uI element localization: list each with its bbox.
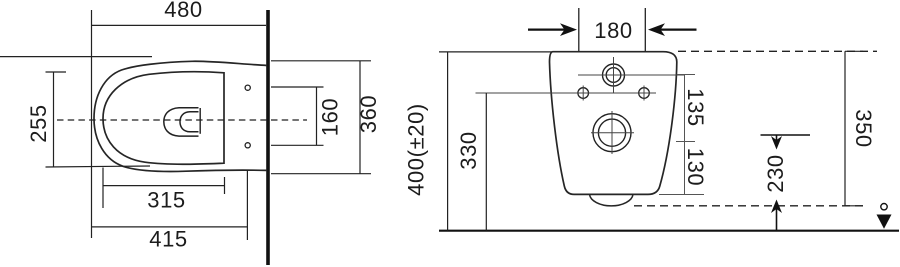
- dim 135 top tick: [677, 74, 695, 76]
- reference line top-left: [0, 56, 152, 58]
- drain circle outer: [593, 114, 631, 152]
- datum triangle: [877, 215, 892, 229]
- fixing hole top (top view): [245, 85, 250, 90]
- toilet seat inner outline (top view): [103, 72, 224, 164]
- svg-text:180: 180: [594, 18, 633, 43]
- dim 180 left arrow: [528, 23, 577, 36]
- svg-text:315: 315: [147, 188, 186, 213]
- bottom dashed reference line: [634, 205, 867, 207]
- dim 315 right extension: [224, 177, 226, 194]
- svg-text:255: 255: [26, 104, 51, 143]
- fixing hole bottom (top view): [245, 143, 250, 148]
- dim 360 bottom tick: [271, 173, 371, 175]
- svg-text:400(±20): 400(±20): [404, 103, 429, 196]
- dim 415 line: [92, 226, 248, 228]
- svg-text:135: 135: [683, 88, 708, 127]
- inlet circle outer: [603, 64, 625, 86]
- dim 160 top tick: [271, 86, 324, 88]
- dim 180 left extension: [578, 8, 580, 52]
- dim 180 right arrow: [648, 23, 697, 36]
- svg-text:415: 415: [149, 226, 188, 251]
- dim 160 bottom tick: [271, 144, 324, 146]
- drain circle inner: [598, 119, 625, 146]
- outlet bump: [590, 194, 634, 205]
- dim 160 line: [316, 87, 318, 145]
- dim 135/130 middle tick: [676, 141, 695, 143]
- flush opening outer arc: [164, 108, 199, 136]
- svg-text:360: 360: [356, 95, 381, 134]
- dim 230 top tick: [761, 134, 811, 136]
- toilet body outline (front view): [550, 52, 677, 195]
- dim 180 right extension: [644, 8, 646, 52]
- dim 360 top tick: [271, 60, 371, 62]
- dim 315 left extension: [102, 168, 104, 209]
- dim 130 bottom tick: [659, 194, 704, 196]
- floor line: [439, 230, 899, 232]
- svg-text:480: 480: [164, 0, 203, 22]
- svg-text:350: 350: [851, 109, 876, 148]
- dim 350 top tick: [845, 50, 863, 52]
- dim 230 up arrow: [771, 200, 782, 231]
- dim 230 down arrow: [771, 135, 782, 150]
- dim 415 right extension: [246, 170, 248, 240]
- dim 360 line: [359, 61, 361, 174]
- side hole right: [639, 88, 650, 99]
- flush opening chord line: [199, 108, 201, 134]
- toilet outer outline (top view): [94, 61, 267, 171]
- dim 480 line: [92, 24, 267, 26]
- side hole left vertical crosshair: [582, 86, 584, 101]
- dim 350 bottom tick: [845, 205, 863, 207]
- inlet circle inner: [606, 68, 621, 83]
- top reference line: [439, 51, 556, 53]
- wall line: [266, 10, 270, 265]
- top dashed reference line: [678, 50, 877, 52]
- dim 255 line: [53, 72, 55, 167]
- inlet horizontal crosshair / 135 top reference: [578, 74, 685, 76]
- drain vertical crosshair: [611, 111, 613, 154]
- dim 135/130 line: [684, 75, 686, 195]
- centerline dashed (top view): [57, 119, 307, 121]
- dim 350 line: [844, 51, 846, 206]
- side holes horizontal line / 330 top reference: [476, 92, 657, 94]
- dim 255 bottom tick: [46, 166, 151, 167]
- svg-text:230: 230: [763, 154, 788, 193]
- drain horizontal crosshair: [591, 132, 634, 134]
- dim 330 line: [485, 93, 487, 231]
- dim 315 line: [103, 185, 225, 187]
- dim 255 top tick: [46, 71, 67, 73]
- svg-text:330: 330: [456, 131, 481, 170]
- svg-text:160: 160: [318, 98, 343, 137]
- dim 480 left extension: [91, 10, 93, 238]
- inlet vertical crosshair: [613, 57, 615, 94]
- datum circle: [881, 204, 887, 210]
- side hole right vertical crosshair: [643, 86, 645, 101]
- svg-text:130: 130: [683, 148, 708, 187]
- dim 400 line: [447, 52, 449, 231]
- side hole left: [578, 88, 589, 99]
- flush opening inner arc: [180, 112, 199, 132]
